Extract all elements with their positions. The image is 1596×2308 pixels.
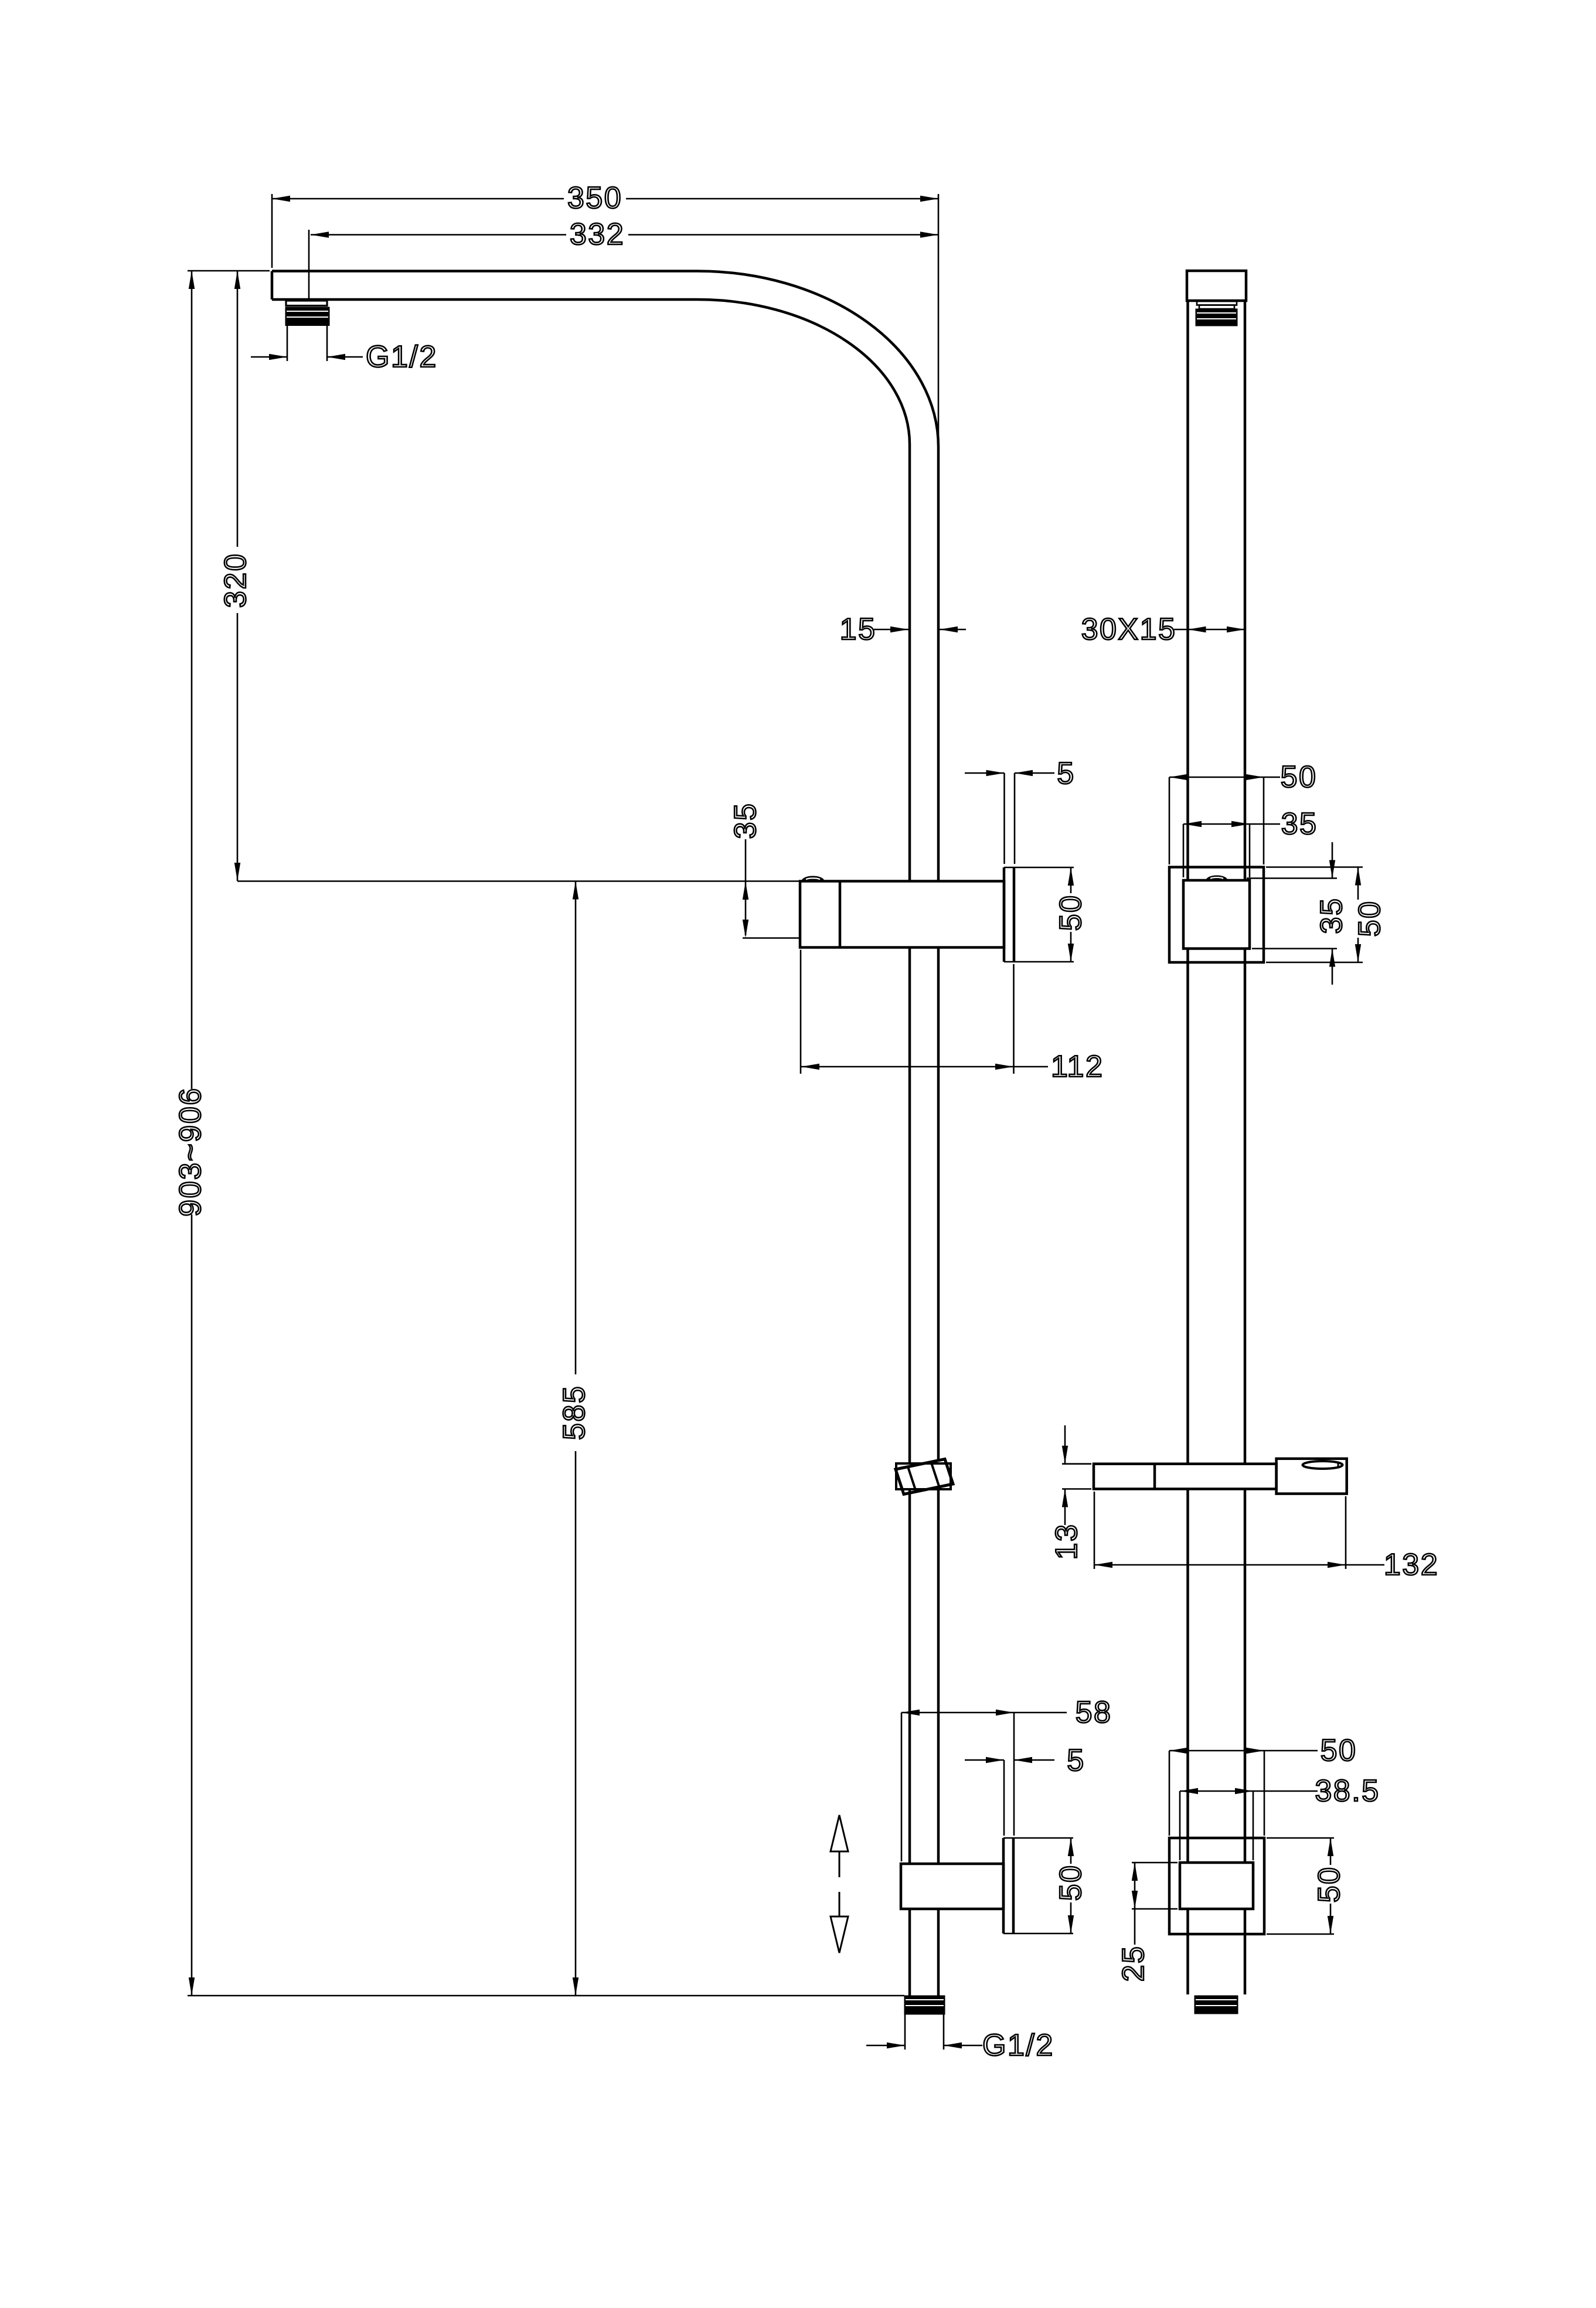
ext lines 112 [800,950,802,1074]
ext lines 13 [1062,1463,1091,1465]
upper bracket dome button [802,876,824,881]
dim 38.5 line [1180,1790,1318,1792]
dim 5 lower (plate thickness) [965,1759,1004,1761]
rail top cap (side view) [1187,271,1246,301]
svg-text:5: 5 [1057,757,1075,791]
dim 50 lower ring width (right view) [1169,1750,1318,1752]
dim 5 upper (plate thickness) [965,772,1005,774]
upper bracket dome button (side view) [1206,876,1227,880]
dim G1/2 top [251,356,287,358]
extension line top left [188,270,270,272]
dim 50 ring width (right view) [1169,777,1280,778]
ext lines G1/2 top [287,326,288,361]
svg-text:35: 35 [1315,897,1349,934]
dim G1/2 bottom [866,2045,905,2047]
top G1/2 connector thread (black) [285,307,329,326]
extension line pipe right top [938,194,940,445]
svg-text:35: 35 [1281,807,1318,841]
holder head (side view) [1277,1459,1347,1494]
bottom G1/2 thread (black) [904,1996,945,2014]
lower bracket ring (side view) [1169,1838,1264,1934]
ext lines 5 upper [1003,773,1005,864]
svg-text:30X15: 30X15 [1081,612,1177,646]
lower bracket wall plate [1002,1838,1005,1933]
svg-text:903~906: 903~906 [173,1087,207,1216]
dim 13 (holder bar) [1064,1425,1066,1464]
lower bracket arm (front view) [901,1864,1003,1909]
ext lines G1/2 bottom [904,2014,906,2050]
ext lines 50 lower vertical [1267,1837,1334,1839]
ext lines 132 [1094,1492,1095,1569]
upper bracket arm (front view) [800,881,1004,948]
lower bracket slider block (side view) [1180,1863,1253,1909]
rail top connector flange [1197,301,1237,305]
svg-text:50: 50 [1353,900,1387,937]
rail bottom thread (black, side view) [1195,1996,1238,2014]
dim 15 leader and arrows [874,629,908,631]
dim 50 upper plate height [1070,867,1072,893]
ext lines 50 lower ring [1169,1751,1170,1836]
ext lines right bracket verticals [1266,866,1363,868]
dim 585 line [575,881,577,1375]
ext lines 58 [901,1713,903,1861]
svg-text:332: 332 [570,217,625,251]
upper bracket wall plate [1003,867,1006,962]
extension line bracket level [237,880,800,882]
shower arm bottom edge with inner curve [272,299,910,444]
upper bracket slider block (side view) [1183,880,1250,949]
dim 112 line [801,1066,1048,1068]
ext line 35 bottom [743,937,801,939]
ext lines 35 block width [1183,824,1185,877]
svg-text:13: 13 [1050,1523,1084,1560]
upper bracket arm divider [839,881,842,948]
svg-text:50: 50 [1281,760,1318,794]
svg-text:15: 15 [840,612,877,646]
dim 903~906 line [191,271,193,1089]
movement arrow up (open) [831,1815,848,1851]
rail top connector thread (black) [1196,309,1237,326]
svg-text:5: 5 [1067,1744,1085,1778]
svg-text:132: 132 [1384,1548,1439,1582]
svg-text:50: 50 [1312,1866,1346,1903]
extension line bottom [188,1995,904,1997]
svg-text:112: 112 [1051,1050,1104,1084]
dim 132 line [1094,1564,1384,1566]
dim 350 line [272,198,564,200]
dim 50 lower plate height [1070,1838,1072,1864]
svg-text:G1/2: G1/2 [982,2028,1054,2062]
slider clip straight rectangle [896,1463,951,1489]
svg-text:350: 350 [567,181,622,215]
svg-text:50: 50 [1054,894,1088,931]
dim 320 line [237,271,239,547]
ext lines 38.5 [1179,1791,1181,1860]
svg-text:58: 58 [1076,1696,1112,1730]
dim 50 vertical (right view) [1357,867,1359,900]
dim 332 line [311,234,566,236]
slider clip tilted inner lines [908,1467,916,1492]
svg-text:35: 35 [729,802,763,839]
riser pipe right edge [937,447,940,881]
svg-text:25: 25 [1117,1945,1151,1982]
svg-text:50: 50 [1054,1864,1088,1901]
dim 35 block width (right view) [1183,823,1280,825]
shower arm left end cap [271,271,274,300]
upper bracket ring (side view) [1169,867,1264,963]
ext line 5 lower [1003,1760,1005,1836]
svg-text:G1/2: G1/2 [366,340,438,374]
extension line 332 left [308,230,310,300]
dim 35 vertical (right view) [1332,842,1333,879]
ext lines 25 [1132,1862,1178,1864]
rail left edge (side view) [1186,301,1189,880]
svg-text:50: 50 [1321,1734,1357,1768]
holder head hole ellipse [1303,1461,1343,1469]
top G1/2 connector flange [286,301,327,306]
rail right edge (side view) [1244,301,1247,880]
extension line arm left [271,194,273,268]
dim 58 line [901,1712,1067,1714]
dim 50 lower vertical (right view) [1330,1838,1332,1865]
dim 25 (block height) [1134,1863,1136,1909]
dim 30X15 leader and arrows [1174,629,1245,631]
dim 35 left view (bracket height) [745,839,747,935]
svg-text:38.5: 38.5 [1315,1774,1380,1808]
svg-text:320: 320 [219,553,253,608]
slider clip tilted rectangle [896,1459,953,1495]
hand shower holder bar (side view) [1094,1464,1277,1489]
shower arm top edge with outer curve [272,271,938,447]
holder bar divider [1153,1464,1156,1489]
svg-text:585: 585 [557,1385,591,1440]
ext lines 50 ring width [1169,777,1170,864]
riser pipe left edge [908,444,911,881]
movement arrow down (open) [839,1892,840,1916]
